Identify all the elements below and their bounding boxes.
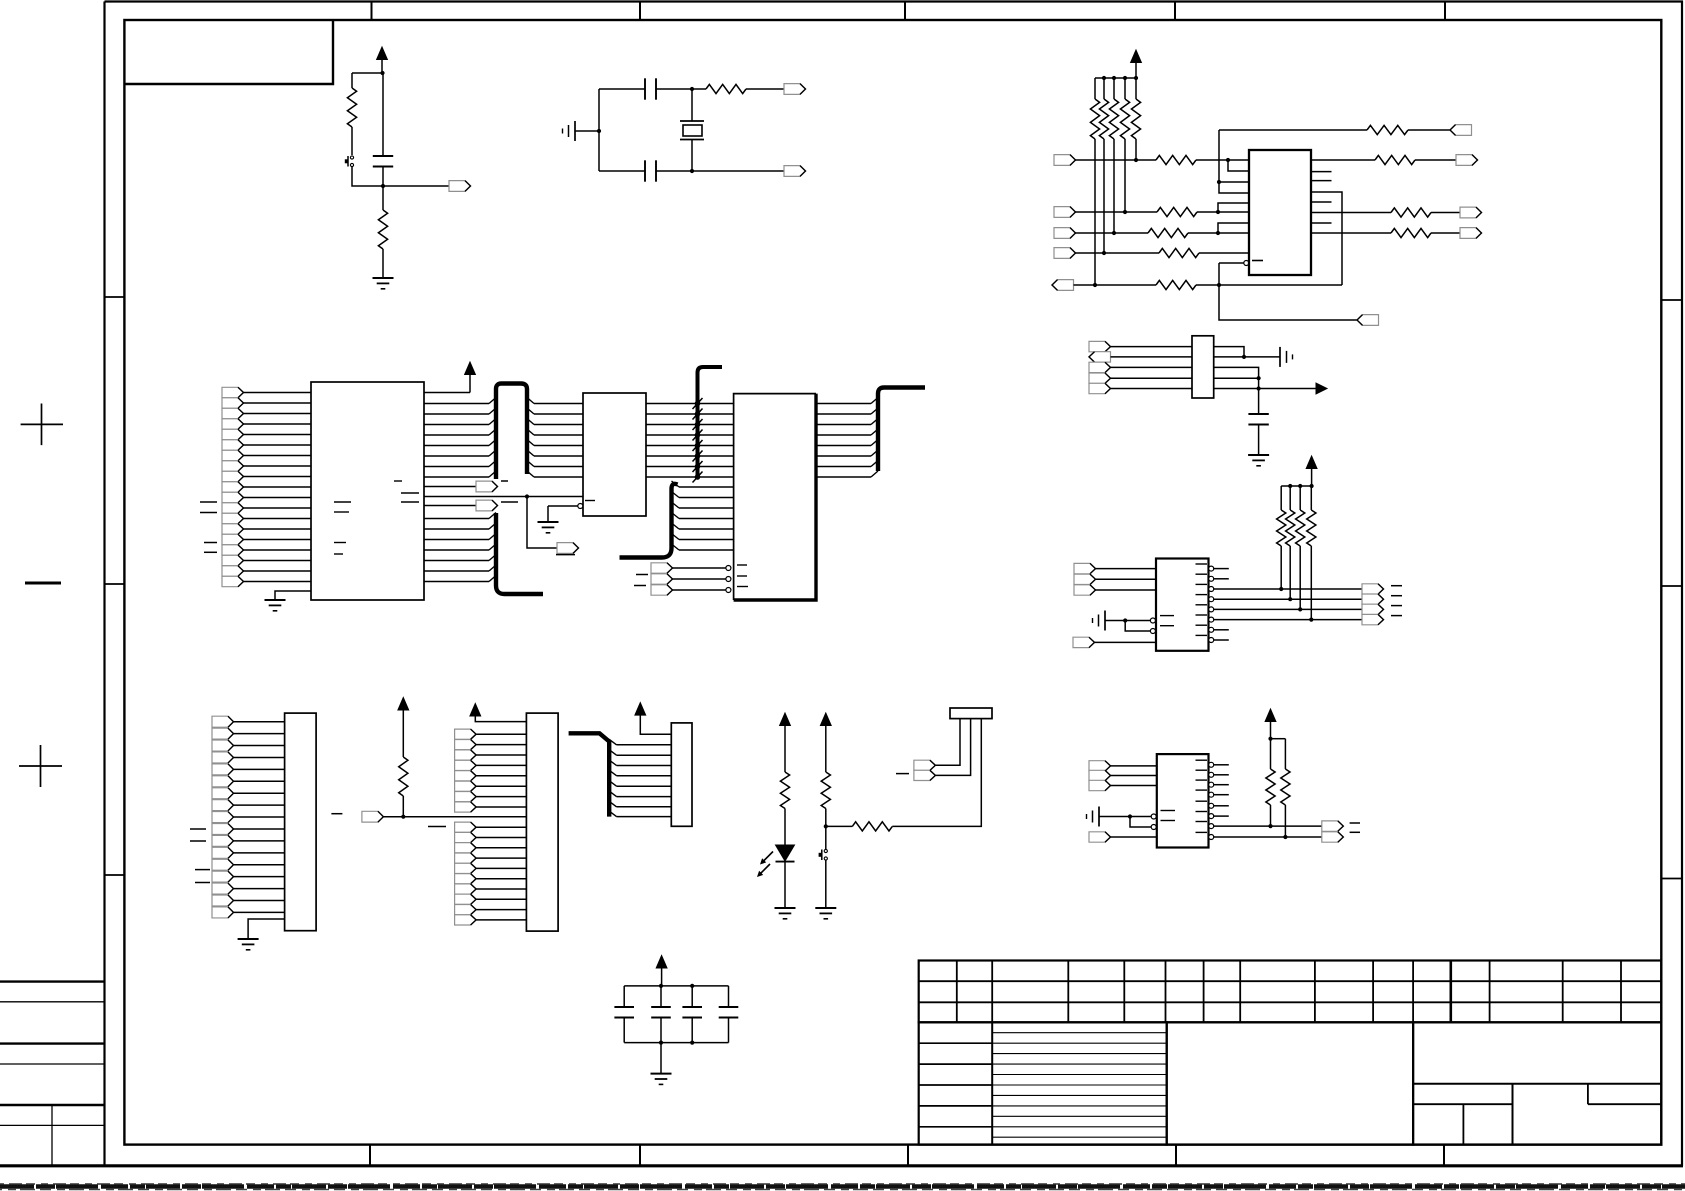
pin label dash: [737, 564, 747, 566]
wire: [646, 424, 734, 426]
pin label dash: [334, 542, 346, 544]
wire: [816, 434, 871, 436]
bus entry: [489, 429, 496, 435]
wire: [424, 455, 489, 457]
wire: [534, 476, 583, 478]
wire: [1197, 211, 1249, 213]
wire ground pin: [248, 919, 285, 939]
wire: [1214, 388, 1316, 390]
wire: [382, 73, 384, 186]
wire: [1311, 159, 1375, 161]
net port F3: [1362, 604, 1384, 614]
top margin zone tick 1: [371, 2, 373, 21]
wire: [476, 733, 526, 735]
title block mid row line: [992, 1105, 1166, 1107]
wire: [825, 826, 827, 849]
wire: [691, 140, 693, 172]
wire: [1076, 232, 1149, 234]
net port C3: [651, 585, 673, 595]
wire: [424, 403, 489, 405]
net label dash: [1350, 831, 1360, 833]
net port N2: [455, 843, 477, 853]
IC U6: [1157, 754, 1209, 847]
net label dash: [204, 542, 217, 544]
node junction: [1112, 231, 1116, 235]
net port K6: [212, 788, 234, 799]
wire: [1130, 816, 1151, 818]
net port M6: [455, 792, 477, 802]
resistor R7: [1159, 248, 1199, 257]
net port N1: [455, 832, 477, 842]
wire: [1289, 546, 1291, 599]
wire: [244, 444, 312, 446]
wire: [475, 716, 526, 722]
net label dash: [200, 501, 217, 503]
title block right row line: [1413, 1083, 1661, 1085]
bus entry: [871, 398, 878, 404]
net port A0: [222, 387, 244, 397]
net port D4: [1089, 373, 1111, 383]
pin label dash: [1196, 583, 1208, 585]
bus entry: [489, 555, 496, 561]
net port M7: [455, 802, 477, 812]
ground: [815, 907, 836, 909]
wire: [476, 796, 526, 798]
power flag VCC mid: [398, 698, 409, 711]
bus exit: [672, 513, 680, 519]
wire: [692, 88, 784, 90]
net port A2: [222, 408, 244, 418]
wire: [935, 719, 970, 776]
resistor R2: [378, 210, 387, 249]
wire: [1094, 139, 1096, 285]
wire: [892, 719, 981, 827]
bus E: [878, 388, 925, 472]
net port B1: [476, 481, 498, 492]
bus C vertical tap: [698, 367, 723, 477]
wire: [617, 806, 672, 808]
wire: [1284, 805, 1286, 837]
wire: [1214, 367, 1259, 378]
no-connect stub pin: [1214, 578, 1229, 580]
wire: [402, 710, 404, 757]
net port E1: [1074, 563, 1096, 573]
wire: [1415, 159, 1456, 161]
node junction: [597, 129, 601, 133]
wire: [1111, 775, 1157, 777]
wire: [679, 539, 734, 541]
net port E4: [1073, 637, 1095, 647]
wire: [1130, 817, 1151, 828]
net label dash: [190, 840, 206, 842]
wire: [476, 888, 526, 890]
inverter bubble: [1150, 618, 1155, 623]
bus exit: [672, 481, 680, 487]
pin label dash: [737, 586, 748, 588]
wire: [1431, 212, 1460, 214]
wire: [816, 424, 871, 426]
wire: [476, 785, 526, 787]
wire: [476, 919, 526, 921]
wire: [424, 486, 476, 488]
resistor R9: [1367, 125, 1408, 134]
wire: [424, 476, 489, 478]
net label dash: [200, 512, 217, 514]
resistor R1: [347, 88, 356, 127]
bus exit: [609, 781, 616, 787]
title block top band outline: [919, 961, 1662, 1023]
net port M0: [455, 729, 477, 739]
no-connect stub pin: [1311, 222, 1332, 224]
net port A1: [222, 398, 244, 408]
net port K13: [212, 871, 234, 882]
wire: [382, 249, 384, 278]
bus entry: [489, 398, 496, 404]
bus entry: [871, 408, 878, 414]
title block mid row line: [992, 1063, 1166, 1065]
net port A8: [222, 471, 244, 481]
node junction: [1268, 824, 1272, 828]
sheet outer border bottom edge: [0, 1164, 1683, 1167]
resistor R4: [1156, 155, 1196, 164]
net port G1: [1089, 761, 1111, 771]
wire: [728, 986, 730, 1007]
wire: [1214, 356, 1280, 358]
wire: [244, 486, 312, 488]
wire: [234, 733, 285, 735]
net port K11: [212, 847, 234, 858]
net port K8: [212, 812, 234, 823]
net port in2: [1054, 207, 1076, 218]
inverter bubble: [1151, 814, 1156, 819]
bus junction: [695, 453, 701, 459]
no-connect stub pin: [1214, 794, 1229, 796]
pin label dash: [1252, 260, 1263, 262]
wire: [244, 518, 312, 520]
bus junction: [695, 401, 701, 407]
wire: [617, 816, 672, 818]
top margin zone tick 4: [1174, 2, 1176, 21]
pin label dash: [1196, 800, 1208, 802]
net port out3: [1460, 228, 1482, 239]
wire: [1214, 588, 1362, 590]
net port G3: [1089, 780, 1111, 790]
node junction: [1216, 210, 1220, 214]
net port in3: [1054, 228, 1076, 239]
wire: [679, 497, 734, 499]
bus junction: [695, 464, 701, 470]
node junction: [1123, 210, 1127, 214]
wire: [646, 455, 734, 457]
node junction: [690, 169, 694, 173]
wire: [1270, 722, 1272, 739]
net port XTAL2: [784, 166, 806, 177]
net label dash: [501, 480, 508, 482]
wire: [825, 809, 827, 827]
pin label dash: [401, 501, 419, 503]
node junction: [1216, 231, 1220, 235]
pin label dash: [1196, 614, 1208, 616]
wire: [1284, 739, 1286, 769]
wire: [1076, 211, 1158, 213]
net label dash: [1391, 615, 1402, 617]
left margin filing table line 1: [0, 980, 105, 982]
wire: [424, 434, 489, 436]
wire: [244, 434, 312, 436]
bottom margin zone tick 4: [1175, 1145, 1177, 1166]
net port M5: [455, 781, 477, 791]
bus entry: [489, 440, 496, 446]
net port out2: [1460, 207, 1482, 218]
wire: [826, 825, 853, 827]
node junction: [690, 984, 694, 988]
wire: [1214, 378, 1259, 388]
node junction: [401, 815, 405, 819]
wire: [1280, 546, 1282, 589]
node junction: [1112, 76, 1116, 80]
net port H1: [1322, 821, 1344, 831]
wire: [424, 518, 489, 520]
wire: [424, 539, 489, 541]
bus exit: [609, 760, 616, 766]
inverter bubble: [1209, 772, 1214, 777]
wire: [244, 560, 312, 562]
net port K15: [212, 895, 234, 906]
cap bank top rail: [624, 985, 728, 987]
wire: [623, 1018, 625, 1043]
node junction: [1226, 158, 1230, 162]
resistor RP1C: [1109, 99, 1118, 139]
pin label dash: [1196, 573, 1208, 575]
wire: [1125, 621, 1150, 632]
node junction: [659, 1041, 663, 1045]
resistor R13: [399, 757, 408, 796]
net label dash: [896, 773, 909, 775]
chassis ground: [1104, 611, 1106, 631]
node junction: [380, 71, 384, 75]
bus entry: [489, 513, 496, 519]
resistor R15: [821, 772, 830, 809]
wire: [646, 413, 734, 415]
wire: [825, 726, 827, 773]
title block mid row line: [992, 1032, 1166, 1034]
net port N7: [455, 894, 477, 904]
net port L1: [362, 811, 384, 822]
net port P2: [914, 770, 936, 780]
power flag VCC LED: [780, 713, 791, 726]
bus tick: [693, 451, 703, 462]
registration dash mark middle: [25, 582, 61, 585]
ground: [1248, 454, 1269, 456]
node junction: [1257, 376, 1261, 380]
capacitor C3: [644, 160, 646, 181]
node junction: [690, 1041, 694, 1045]
resistor R8: [1156, 280, 1196, 289]
wire: [1214, 598, 1362, 600]
net label dash: [556, 554, 575, 556]
wire: [547, 506, 549, 522]
inverter bubble: [1209, 566, 1214, 571]
wire: [234, 780, 285, 782]
net port K0: [212, 716, 234, 727]
resistor RP1E: [1131, 99, 1140, 139]
bus entry: [489, 534, 496, 540]
wire: [1188, 232, 1249, 234]
node junction: [525, 494, 529, 498]
capacitor bank C: [651, 1006, 671, 1008]
wire inverted-enable riser: [1219, 263, 1357, 320]
wire: [1076, 252, 1160, 254]
net port K14: [212, 883, 234, 894]
bus junction: [695, 411, 701, 417]
net port F4: [1362, 614, 1384, 624]
no-connect stub pin: [1214, 784, 1229, 786]
wire: [691, 89, 693, 121]
inverter bubble: [1244, 261, 1249, 266]
bus entry: [871, 440, 878, 446]
wire: [646, 476, 734, 478]
wire: [1431, 232, 1460, 234]
ground: [775, 907, 796, 909]
power flag VCC pullups: [1131, 50, 1142, 63]
ground: [538, 521, 559, 523]
bus tick: [693, 440, 703, 451]
top margin zone tick 3: [904, 2, 906, 21]
registration cross mark bottom: [19, 745, 62, 787]
wire: [1218, 203, 1249, 212]
wire: [1408, 129, 1450, 131]
net port RESET: [449, 181, 471, 192]
wire: [476, 764, 526, 766]
no-connect stub pin: [1214, 774, 1229, 776]
wire: [244, 413, 312, 415]
net port D1: [1089, 341, 1111, 351]
inverter bubble: [1209, 762, 1214, 767]
bus entry: [489, 523, 496, 529]
node junction: [1268, 737, 1272, 741]
node junction: [1128, 814, 1132, 818]
wire: [476, 775, 526, 777]
wire: [1196, 159, 1249, 161]
node junction: [1102, 251, 1106, 255]
wire ground pin: [275, 591, 311, 600]
wire: [234, 756, 285, 758]
pin label dash: [334, 511, 349, 513]
no-connect stub pin: [1214, 568, 1229, 570]
left margin zone tick 1: [105, 296, 125, 298]
wire: [1310, 486, 1312, 510]
bus F: [569, 733, 610, 816]
net port C2: [651, 574, 673, 584]
wire: [623, 986, 625, 1007]
wire: [728, 1018, 730, 1043]
inverter bubble: [1209, 835, 1214, 840]
pin label dash: [1196, 789, 1208, 791]
wire: [646, 434, 734, 436]
capacitor bank C: [719, 1006, 739, 1008]
pushbutton S1: [350, 156, 353, 159]
resistor RP1B: [1099, 99, 1108, 139]
net port M2: [455, 750, 477, 760]
net label dash: [1391, 605, 1402, 607]
pin label dash: [737, 575, 747, 577]
wire: [234, 745, 285, 747]
left margin zone tick 2: [105, 583, 125, 585]
wire: [244, 402, 312, 404]
net port K2: [212, 740, 234, 751]
wire: [424, 392, 470, 394]
left margin filing table divider: [51, 1105, 53, 1166]
wire: [424, 445, 489, 447]
inverter bubble: [726, 566, 731, 571]
no-connect stub pin: [1214, 805, 1229, 807]
wire: [1299, 486, 1301, 510]
capacitor bank C: [682, 1006, 702, 1008]
wire: [1135, 139, 1137, 160]
bus A: [496, 384, 527, 480]
cap bank bottom rail: [624, 1042, 728, 1044]
wire: [660, 1018, 662, 1043]
wire: [424, 466, 489, 468]
node junction: [1288, 597, 1292, 601]
node junction: [1279, 587, 1283, 591]
net port N9: [455, 915, 477, 925]
net label dash: [190, 828, 206, 830]
wire: [1311, 212, 1391, 214]
net port out-top: [1450, 125, 1472, 136]
net label dash: [331, 813, 342, 815]
wire: [816, 476, 871, 478]
title block top band column: [956, 961, 958, 1023]
title block left row line: [919, 1042, 993, 1044]
wire: [640, 715, 671, 734]
net port D3: [1089, 362, 1111, 372]
inverter bubble: [726, 588, 731, 593]
wire: [402, 796, 404, 817]
wire: [234, 768, 285, 770]
bus exit: [609, 739, 616, 745]
left margin filing table line 4: [0, 1063, 105, 1065]
title block top band column: [1562, 961, 1564, 1023]
wire: [679, 507, 734, 509]
inverter bubble: [1209, 814, 1214, 819]
bus tick: [693, 461, 703, 472]
inverter bubble: [726, 577, 731, 582]
title block mid row line: [992, 1136, 1166, 1138]
power flag VCC button: [820, 713, 831, 726]
crystal Y1: [680, 120, 704, 122]
node junction: [1102, 76, 1106, 80]
top margin zone tick 5: [1444, 2, 1446, 21]
bus exit: [609, 750, 616, 756]
resistor R12: [1391, 228, 1431, 237]
wire: [1125, 620, 1150, 622]
net port E3: [1074, 585, 1096, 595]
wire: [1113, 78, 1115, 99]
title block top band column: [991, 961, 993, 1023]
title block mid row line: [992, 1074, 1166, 1076]
wire: [1124, 78, 1126, 99]
wire riser: [1219, 130, 1249, 193]
wire: [352, 167, 383, 187]
pin label dash: [1196, 563, 1208, 565]
wire: [1094, 78, 1096, 99]
resistor RP1D: [1120, 99, 1129, 139]
power arrow right: [1316, 383, 1327, 394]
capacitor C1: [373, 155, 393, 157]
net port N5: [455, 874, 477, 884]
wire: [234, 852, 285, 854]
